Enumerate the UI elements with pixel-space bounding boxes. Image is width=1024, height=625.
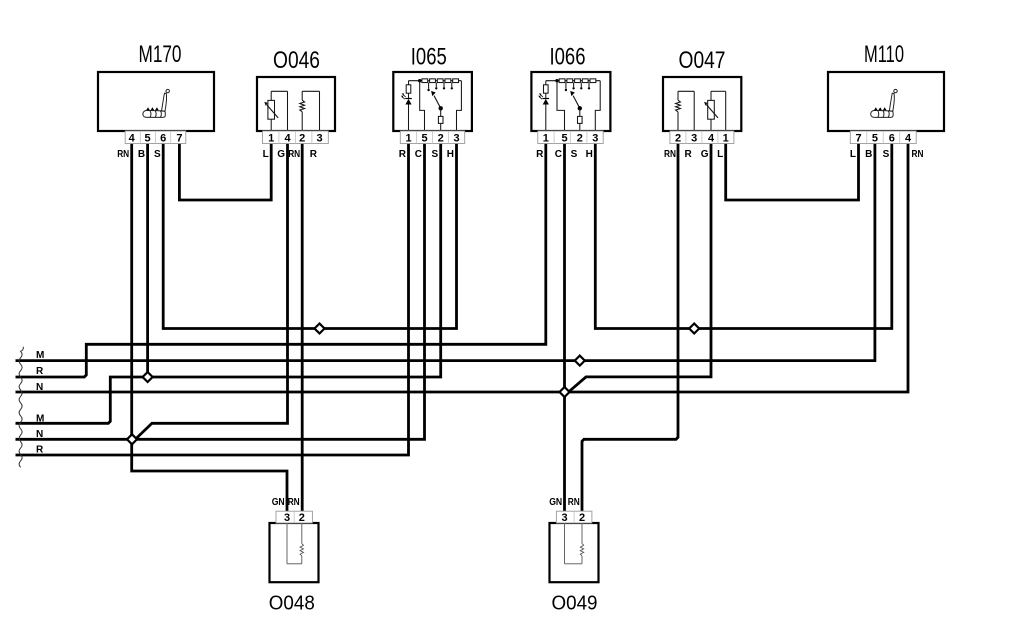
svg-text:GN: GN (549, 497, 562, 508)
connector strip O048 (276, 511, 312, 523)
svg-text:N: N (36, 429, 43, 440)
svg-text:5: 5 (421, 132, 427, 144)
component I066 box (531, 72, 610, 131)
svg-text:7: 7 (855, 132, 861, 144)
svg-text:5: 5 (145, 132, 151, 144)
svg-text:S: S (432, 149, 439, 160)
svg-text:B: B (138, 149, 145, 160)
splice: I066 pin2 joins M net (575, 356, 585, 366)
svg-text:B: B (865, 149, 872, 160)
svg-text:3: 3 (284, 512, 290, 524)
wire C-GN: I066 pin5 to O049 pin3 (563, 144, 566, 512)
I066 internals: switch with LED and resistor chain (538, 79, 600, 131)
wire N2 net: left entry N to I065 pin5 (16, 144, 425, 440)
pin numbers O047 (2 3 4 1) (675, 132, 729, 144)
connector strip M170 (125, 131, 186, 144)
pin numbers M170 (4 5 6 7) (129, 132, 183, 144)
svg-text:M170: M170 (139, 41, 182, 68)
wire N net: left entry N to M110 pin4 (16, 144, 909, 393)
svg-text:7: 7 (176, 132, 182, 144)
svg-text:R: R (36, 366, 44, 377)
O047 internals: NTC sensor loop (pins 4-1) (704, 91, 726, 131)
pin numbers M110 (7 5 6 4) (855, 132, 912, 144)
wire M2 net: left entry M to I065 pin2 (16, 144, 441, 424)
harness wire label M (row 1) (36, 350, 44, 361)
wire labels above O048 (GN RN) (272, 497, 300, 508)
svg-text:M: M (36, 413, 44, 424)
component O047 box (663, 77, 741, 131)
svg-text:2: 2 (299, 512, 305, 524)
svg-text:5: 5 (561, 132, 567, 144)
svg-text:1: 1 (405, 132, 411, 144)
wire L: O047 pin1 to M110 pin7 (726, 144, 859, 201)
svg-text:O046: O046 (273, 47, 320, 74)
svg-text:R: R (684, 149, 692, 160)
connector strip I065 (400, 131, 464, 144)
svg-text:2: 2 (579, 512, 585, 524)
component M110 box (828, 72, 944, 131)
svg-text:L: L (850, 149, 856, 160)
pin numbers I066 (1 5 2 3) (543, 132, 599, 144)
svg-text:I065: I065 (411, 44, 447, 71)
wire labels under I065 (R C S H) (399, 149, 454, 160)
svg-text:3: 3 (691, 132, 697, 144)
svg-text:3: 3 (561, 512, 567, 524)
svg-text:1: 1 (543, 132, 549, 144)
wire labels under M110 (L B S RN) (850, 149, 924, 160)
splice on S-H right under O047 pin3 (689, 324, 699, 334)
svg-text:3: 3 (453, 132, 459, 144)
wire M net: left entry M to M110 pin5 (16, 144, 875, 361)
connector strip I066 (538, 131, 603, 144)
svg-text:RN: RN (288, 497, 300, 508)
svg-text:RN: RN (912, 149, 924, 160)
svg-text:RN: RN (288, 149, 300, 160)
connector strip O049 (556, 511, 592, 523)
svg-text:O048: O048 (269, 592, 315, 615)
svg-text:S: S (883, 149, 890, 160)
svg-text:C: C (555, 149, 562, 160)
svg-text:G: G (701, 149, 709, 160)
wire labels under O046 (L G RN R) (263, 149, 318, 160)
O046 internals: NTC sensor loop (pins 1-4) (264, 91, 287, 131)
svg-text:O049: O049 (552, 592, 598, 615)
wire S-H right: I066 pin3 to M110 pin6 (595, 144, 892, 329)
svg-text:S: S (571, 149, 578, 160)
wire RN: O047 pin2 to O049 pin2 (582, 144, 678, 512)
harness wire label R (row 2) (36, 366, 44, 377)
left harness break (wavy) symbol (19, 347, 23, 468)
svg-text:H: H (586, 149, 593, 160)
O046 internals: heater resistor loop (pins 2-3) (300, 91, 320, 131)
svg-text:2: 2 (438, 132, 444, 144)
component M170 box (98, 72, 214, 131)
svg-text:2: 2 (675, 132, 681, 144)
component O048 box (270, 523, 319, 582)
svg-text:L: L (263, 149, 269, 160)
splice: B joins M2 net (143, 372, 153, 382)
seat heater icon in M110 (871, 89, 898, 117)
harness wire label N (row 3) (36, 382, 43, 393)
pin numbers O048 (3 2) (284, 512, 305, 524)
svg-text:GN: GN (272, 497, 285, 508)
pin numbers O046 (1 4 2 3) (268, 132, 322, 144)
svg-text:1: 1 (268, 132, 274, 144)
O049 internals: heater element (565, 523, 584, 564)
svg-text:2: 2 (577, 132, 583, 144)
svg-text:5: 5 (872, 132, 878, 144)
connector strip M110 (850, 131, 916, 144)
svg-text:6: 6 (889, 132, 895, 144)
wire L: M170 pin7 to O046 pin1 (179, 144, 271, 201)
svg-text:C: C (415, 149, 422, 160)
svg-text:3: 3 (592, 132, 598, 144)
svg-text:4: 4 (905, 132, 912, 144)
svg-text:S: S (154, 149, 161, 160)
harness wire label M (row 4) (36, 413, 44, 424)
svg-text:RN: RN (568, 497, 580, 508)
wire labels under M170 (RN B S) (117, 149, 161, 160)
svg-text:6: 6 (160, 132, 166, 144)
splice on N2 net (G + RN ground) (127, 434, 137, 444)
O048 internals: heater element (287, 523, 304, 564)
svg-text:R: R (399, 149, 407, 160)
wire R net: left entry R to I066 pin1 (16, 144, 546, 378)
splice on N net (I066 pin5 / O049 wire) (560, 387, 570, 397)
wire R2 net: left entry R to I065 pin1 (16, 144, 409, 456)
pin numbers I065 (1 5 2 3) (405, 132, 459, 144)
seat heater icon in M170 (143, 89, 170, 117)
I065 internals: switch with LED and resistor chain (401, 79, 462, 131)
wire labels under O047 (RN R G L) (664, 149, 723, 160)
wire RN: O046 pin2 to O048 pin2 (301, 144, 304, 512)
svg-text:M110: M110 (864, 41, 904, 68)
svg-text:O047: O047 (679, 47, 726, 74)
O047 internals: heater resistor loop (pins 2-3) (676, 91, 695, 131)
component O046 box (257, 77, 335, 131)
svg-text:N: N (36, 382, 43, 393)
harness wire label N (row 5) (36, 429, 43, 440)
wire labels above O049 (GN RN) (549, 497, 580, 508)
svg-text:R: R (310, 149, 318, 160)
component O049 box (550, 523, 599, 582)
connector strip O047 (670, 131, 734, 144)
svg-text:2: 2 (299, 132, 305, 144)
svg-text:R: R (536, 149, 544, 160)
svg-text:4: 4 (708, 132, 715, 144)
wire N branch to O047 pin4 G (569, 144, 712, 393)
svg-text:L: L (717, 149, 723, 160)
svg-text:R: R (36, 445, 44, 456)
connector strip O046 (263, 131, 329, 144)
wire B: M170 pin5 to splice on M2 net (146, 144, 149, 378)
svg-text:RN: RN (664, 149, 676, 160)
component I065 box (393, 72, 472, 131)
svg-text:3: 3 (316, 132, 322, 144)
svg-text:H: H (447, 149, 454, 160)
splice on S-H left under O046 pin3 (315, 324, 325, 334)
wire S-H left: M170 pin6 to I065 pin3 (163, 144, 456, 329)
svg-text:RN: RN (117, 149, 129, 160)
harness wire label R (row 6) (36, 445, 44, 456)
svg-text:4: 4 (129, 132, 136, 144)
pin numbers O049 (3 2) (561, 512, 585, 524)
wire G branch: O046 pin4 to splice on N2 net (135, 144, 287, 440)
svg-text:1: 1 (723, 132, 729, 144)
wire RN ground: M170 pin4 to O048 pin3 (132, 144, 287, 512)
wire labels under I066 (R C S H) (536, 149, 593, 160)
svg-text:M: M (36, 350, 44, 361)
svg-text:I066: I066 (550, 44, 586, 71)
svg-text:G: G (277, 149, 285, 160)
svg-text:4: 4 (284, 132, 291, 144)
